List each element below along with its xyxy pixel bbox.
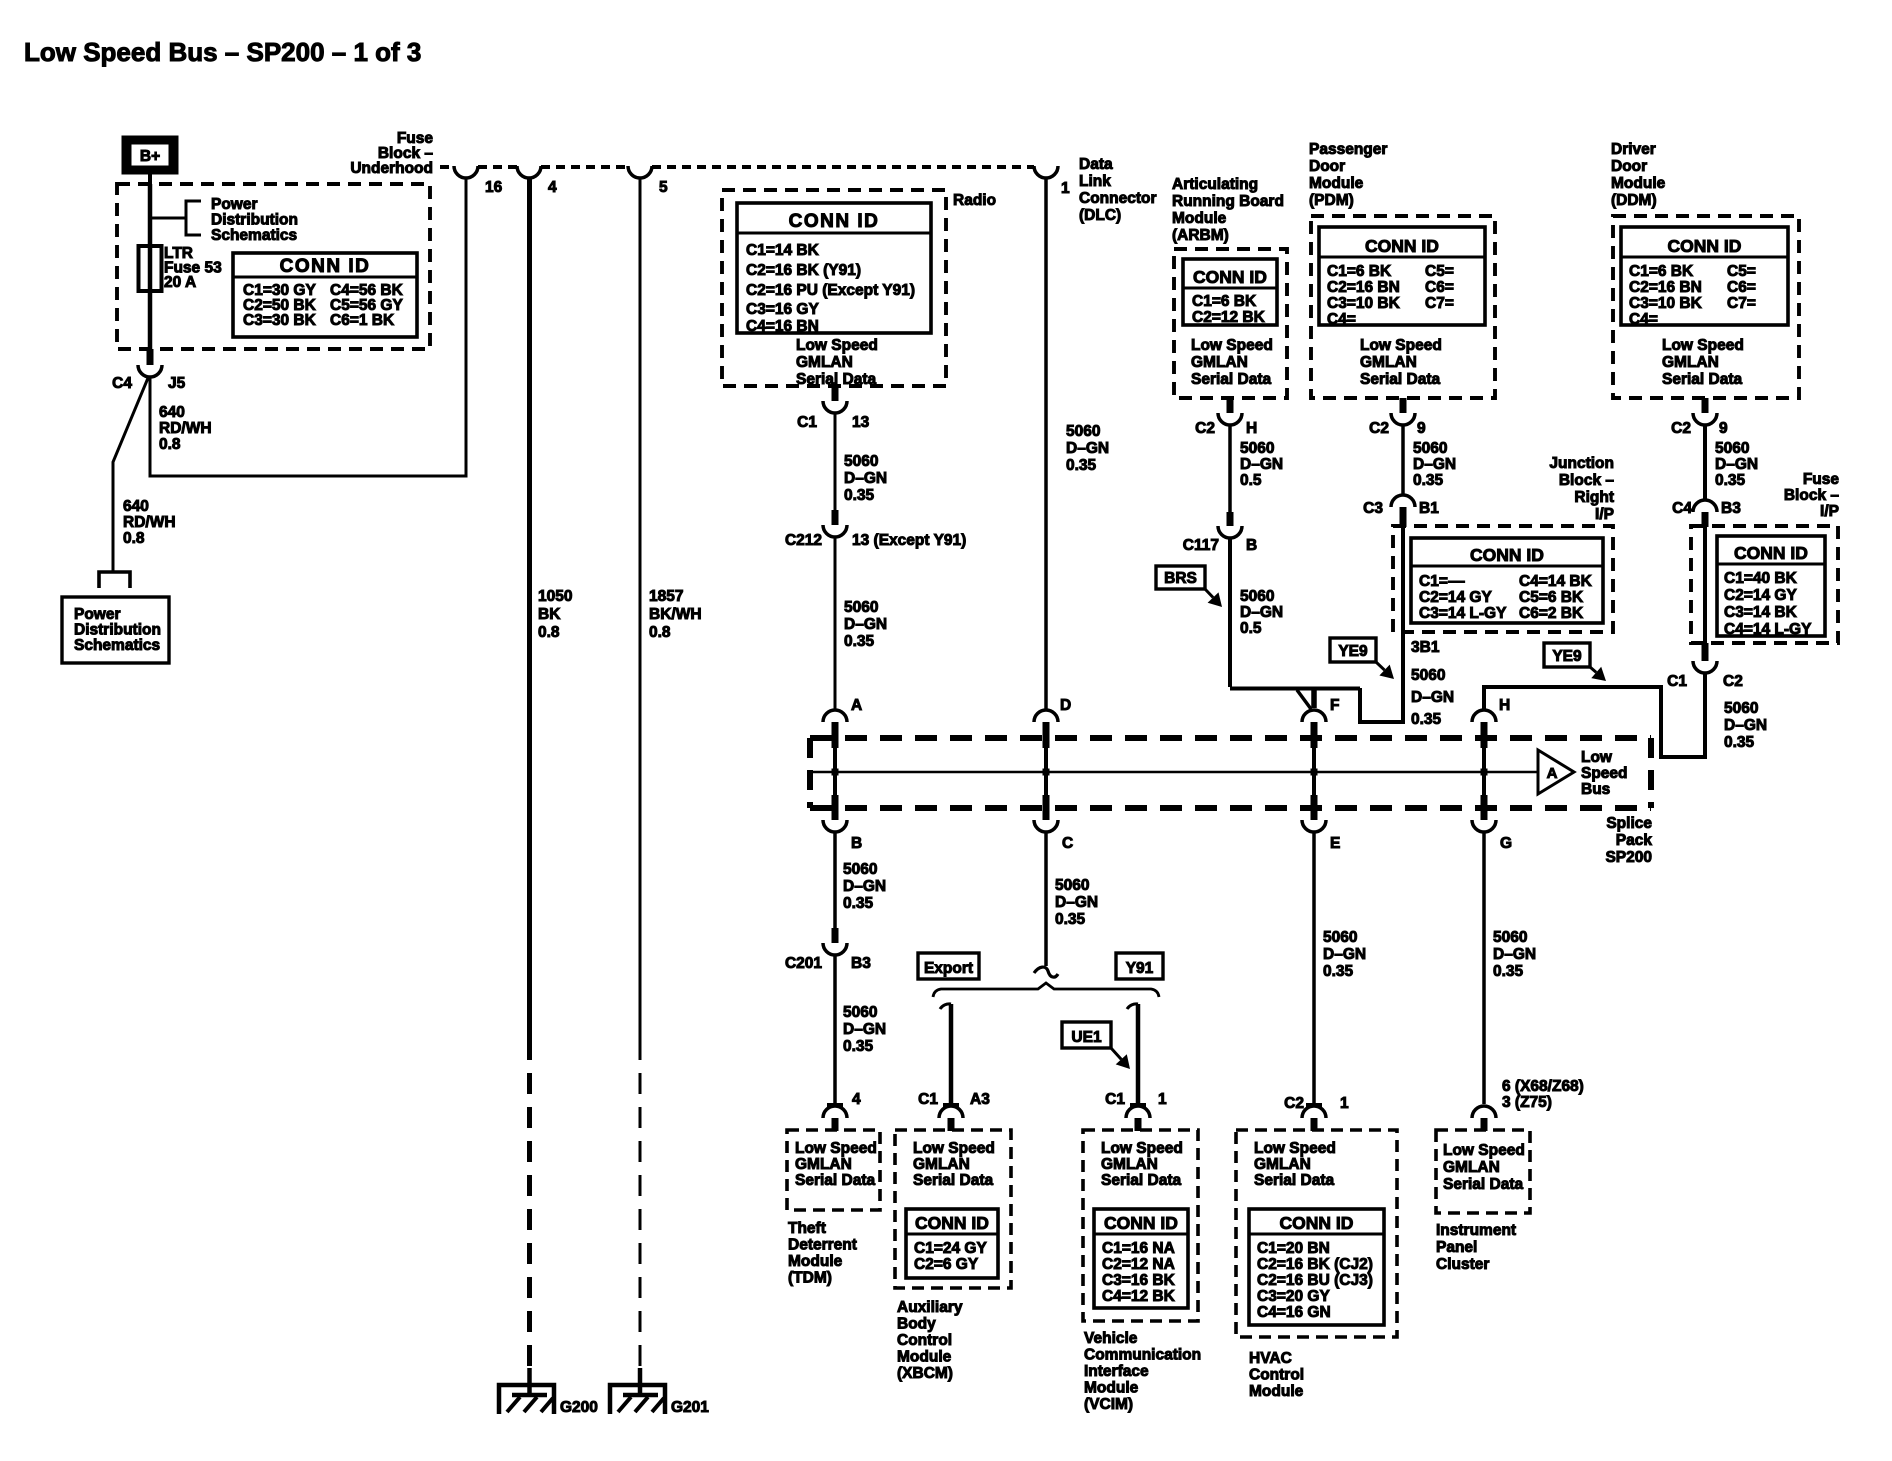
svg-text:C4=14 BK: C4=14 BK <box>1519 573 1593 590</box>
svg-text:0.35: 0.35 <box>1715 472 1746 489</box>
title Low Speed Bus SP200 1 of 3 <box>24 37 421 67</box>
dashed bus fuse block to DLC <box>440 165 1034 169</box>
svg-text:CONN ID: CONN ID <box>789 211 880 232</box>
module XBCM box <box>895 1130 1011 1288</box>
connector C117 B <box>1183 512 1257 554</box>
wire DLC to splice D <box>1044 178 1048 710</box>
svg-text:D–GN: D–GN <box>1066 440 1109 457</box>
svg-text:Connector: Connector <box>1079 190 1157 207</box>
wire radio upper <box>834 413 837 510</box>
conn id table PDM <box>1319 227 1485 328</box>
svg-text:6 (X68/Z68): 6 (X68/Z68) <box>1502 1078 1584 1095</box>
module VCIM box <box>1083 1130 1198 1321</box>
svg-text:Module: Module <box>1611 175 1666 192</box>
svg-text:D–GN: D–GN <box>1411 689 1454 706</box>
low speed bus line <box>812 771 1538 774</box>
wire ARBM to splice F <box>1230 538 1360 709</box>
wire E to HVAC <box>1312 832 1316 1104</box>
svg-text:C7=: C7= <box>1425 295 1454 312</box>
conn id table XBCM <box>906 1209 998 1278</box>
svg-text:I/P: I/P <box>1820 503 1839 520</box>
svg-text:GMLAN: GMLAN <box>1662 354 1719 371</box>
svg-text:C4: C4 <box>1672 500 1692 517</box>
svg-text:YE9: YE9 <box>1552 648 1582 665</box>
svg-text:BK/WH: BK/WH <box>649 606 702 623</box>
svg-text:Right: Right <box>1574 489 1614 506</box>
svg-text:C2: C2 <box>1284 1095 1304 1112</box>
svg-text:Door: Door <box>1309 158 1345 175</box>
connector C1 C2 fuse block IP <box>1667 643 1743 690</box>
svg-text:Serial Data: Serial Data <box>1191 371 1272 388</box>
svg-text:D–GN: D–GN <box>1413 456 1456 473</box>
svg-text:0.8: 0.8 <box>649 624 671 641</box>
svg-text:C2: C2 <box>1671 420 1691 437</box>
svg-text:C7=: C7= <box>1727 295 1756 312</box>
svg-text:C2=14 GY: C2=14 GY <box>1419 589 1492 606</box>
svg-text:640: 640 <box>123 498 149 515</box>
svg-text:Low Speed: Low Speed <box>1191 337 1273 354</box>
svg-text:YE9: YE9 <box>1338 643 1368 660</box>
svg-text:C4=: C4= <box>1327 311 1356 328</box>
svg-text:Auxiliary: Auxiliary <box>897 1299 963 1316</box>
svg-text:C4=16 BN: C4=16 BN <box>746 318 819 335</box>
label Power Distribution Schematics (fuse block) <box>211 196 298 244</box>
svg-text:G: G <box>1500 835 1512 852</box>
label 5060 D-GN 0.35 DLC <box>1066 423 1109 474</box>
svg-text:C4=12 BK: C4=12 BK <box>1102 1288 1176 1305</box>
connector 5 <box>628 166 668 196</box>
flag YE9 right <box>1544 643 1606 681</box>
label Junction Block Right IP <box>1549 455 1614 523</box>
wire fuse to C4 <box>148 246 153 351</box>
wire 1050 BK <box>527 179 532 1372</box>
svg-text:C6=: C6= <box>1425 279 1454 296</box>
svg-text:GMLAN: GMLAN <box>1254 1156 1311 1173</box>
module IPC box <box>1436 1130 1530 1213</box>
label 640 RD/WH 0.8 upper <box>159 404 212 453</box>
svg-text:GMLAN: GMLAN <box>913 1156 970 1173</box>
label Instrument Panel Cluster <box>1436 1222 1516 1273</box>
label Articulating Running Board Module <box>1172 176 1284 244</box>
svg-text:0.35: 0.35 <box>1055 911 1086 928</box>
svg-text:B3: B3 <box>851 955 871 972</box>
svg-text:D–GN: D–GN <box>1715 456 1758 473</box>
svg-text:Y91: Y91 <box>1126 960 1154 977</box>
svg-text:BK: BK <box>538 606 561 623</box>
svg-text:1857: 1857 <box>649 588 683 605</box>
conn id table HVAC <box>1249 1209 1384 1325</box>
label 5060 D-GN 0.35 radio upper <box>844 453 887 504</box>
svg-text:C3=16 GY: C3=16 GY <box>746 301 819 318</box>
wire Y91 branch <box>1127 1004 1138 1104</box>
svg-text:5060: 5060 <box>1240 440 1274 457</box>
label 5060 D-GN 0.35 B <box>843 861 886 912</box>
label Low Speed GMLAN Serial Data Radio <box>796 337 878 388</box>
svg-text:Panel: Panel <box>1436 1239 1477 1256</box>
wire J5 to fuse block pin 16 <box>150 179 466 476</box>
svg-text:Distribution: Distribution <box>211 212 298 229</box>
svg-text:C: C <box>1062 835 1073 852</box>
svg-text:C6=1 BK: C6=1 BK <box>330 312 395 329</box>
splice connector E <box>1302 772 1340 852</box>
svg-text:Passenger: Passenger <box>1309 141 1387 158</box>
fuse block IP box <box>1691 526 1838 643</box>
svg-text:5060: 5060 <box>1724 700 1758 717</box>
svg-text:(DDM): (DDM) <box>1611 192 1657 209</box>
svg-text:C117: C117 <box>1183 537 1219 554</box>
svg-text:4: 4 <box>852 1091 861 1108</box>
svg-text:Fuse: Fuse <box>1803 471 1840 488</box>
svg-text:Speed: Speed <box>1581 765 1628 782</box>
svg-text:Deterrent: Deterrent <box>788 1237 857 1254</box>
splice connector B <box>823 772 862 852</box>
svg-text:C2=16 BK (CJ2): C2=16 BK (CJ2) <box>1257 1256 1373 1273</box>
svg-text:C3=20 GY: C3=20 GY <box>1257 1288 1330 1305</box>
svg-text:C3=14 L-GY: C3=14 L-GY <box>1419 605 1507 622</box>
splice connector G <box>1472 772 1512 852</box>
svg-text:C2=16 BN: C2=16 BN <box>1629 279 1702 296</box>
svg-text:0.35: 0.35 <box>844 487 875 504</box>
svg-text:Low Speed: Low Speed <box>1443 1142 1525 1159</box>
svg-text:Underhood: Underhood <box>350 160 433 177</box>
svg-text:Serial Data: Serial Data <box>1662 371 1743 388</box>
svg-text:Low Speed: Low Speed <box>1662 337 1744 354</box>
power distribution schematics box <box>62 597 169 663</box>
svg-text:C3: C3 <box>1363 500 1383 517</box>
svg-text:Module: Module <box>897 1349 952 1366</box>
svg-text:Serial Data: Serial Data <box>1254 1172 1335 1189</box>
svg-text:C1=24 GY: C1=24 GY <box>914 1240 987 1257</box>
svg-text:Serial Data: Serial Data <box>795 1172 876 1189</box>
svg-text:B+: B+ <box>140 148 160 165</box>
svg-text:C4=16 GN: C4=16 GN <box>1257 1304 1331 1321</box>
svg-text:C2: C2 <box>1195 420 1215 437</box>
svg-text:5060: 5060 <box>1323 929 1357 946</box>
label Fuse Block IP <box>1784 471 1840 520</box>
label Low Speed GMLAN Serial Data DDM <box>1662 337 1744 388</box>
wire 640 RD/WH to power distribution <box>113 378 148 571</box>
svg-text:5060: 5060 <box>1493 929 1527 946</box>
wire junction block internal <box>1401 526 1405 632</box>
svg-text:GMLAN: GMLAN <box>795 1156 852 1173</box>
svg-text:CONN ID: CONN ID <box>1734 543 1808 563</box>
svg-text:C6=2 BK: C6=2 BK <box>1519 605 1584 622</box>
wire C2 to splice H <box>1484 673 1705 757</box>
ground G200 <box>499 1368 598 1416</box>
svg-text:5060: 5060 <box>1413 440 1447 457</box>
svg-text:5060: 5060 <box>1715 440 1749 457</box>
svg-text:Interface: Interface <box>1084 1363 1149 1380</box>
svg-text:Power: Power <box>211 196 258 213</box>
connector 16 <box>454 166 503 196</box>
svg-text:C2=12 BK: C2=12 BK <box>1192 309 1266 326</box>
connector C2 9 DDM <box>1671 398 1728 437</box>
conn id table ARBM <box>1183 259 1277 326</box>
label 1857 BK/WH 0.8 <box>649 588 702 641</box>
svg-text:D–GN: D–GN <box>844 616 887 633</box>
label Driver Door Module DDM <box>1611 141 1666 209</box>
label Low Speed GMLAN Serial Data HVAC <box>1254 1140 1336 1189</box>
label Theft Deterrent Module TDM <box>788 1220 857 1287</box>
svg-text:C4: C4 <box>112 375 132 392</box>
wire B+ into fuse block <box>148 174 152 188</box>
flag YE9 left <box>1330 638 1394 679</box>
svg-text:H: H <box>1499 697 1510 714</box>
module TDM box <box>787 1130 880 1210</box>
wire B to C201 <box>833 832 837 928</box>
svg-text:GMLAN: GMLAN <box>1443 1159 1500 1176</box>
svg-text:H: H <box>1246 420 1257 437</box>
fuse LTR Fuse 53 20A <box>139 246 162 291</box>
wire C drop <box>1044 832 1048 966</box>
off-page bracket power distribution <box>99 572 130 588</box>
svg-text:Theft: Theft <box>788 1220 826 1237</box>
splice pack SP200 box <box>810 738 1651 808</box>
svg-text:0.35: 0.35 <box>1493 963 1524 980</box>
module ARBM box <box>1174 249 1287 398</box>
splice connector D <box>1034 697 1071 776</box>
svg-text:Communication: Communication <box>1084 1347 1201 1364</box>
svg-text:(ARBM): (ARBM) <box>1172 227 1229 244</box>
svg-text:1: 1 <box>1340 1095 1349 1112</box>
label 5060 D-GN 0.35 DDM <box>1715 440 1758 489</box>
svg-text:5060: 5060 <box>843 861 877 878</box>
svg-text:C3=14 BK: C3=14 BK <box>1724 604 1798 621</box>
label 5060 D-GN 0.35 C <box>1055 877 1098 928</box>
svg-text:C1=6 BK: C1=6 BK <box>1192 293 1257 310</box>
label Splice Pack SP200 <box>1605 815 1652 866</box>
label 5060 D-GN 0.35 C2 <box>1724 700 1767 751</box>
svg-text:Serial Data: Serial Data <box>1360 371 1441 388</box>
wire ARBM upper <box>1228 425 1232 514</box>
svg-text:Instrument: Instrument <box>1436 1222 1516 1239</box>
svg-text:1: 1 <box>1158 1091 1167 1108</box>
svg-text:0.35: 0.35 <box>843 895 874 912</box>
svg-text:0.8: 0.8 <box>123 530 145 547</box>
svg-text:CONN ID: CONN ID <box>915 1213 989 1233</box>
svg-text:Serial Data: Serial Data <box>1101 1172 1182 1189</box>
svg-text:20 A: 20 A <box>164 274 196 291</box>
svg-text:13 (Except Y91): 13 (Except Y91) <box>852 532 966 549</box>
svg-text:CONN ID: CONN ID <box>1193 267 1267 287</box>
svg-text:Data: Data <box>1079 156 1113 173</box>
svg-text:Low Speed Bus – SP200 – 1 of 3: Low Speed Bus – SP200 – 1 of 3 <box>24 37 421 67</box>
svg-text:C2: C2 <box>1369 420 1389 437</box>
svg-text:5: 5 <box>659 179 668 196</box>
svg-text:D–GN: D–GN <box>1055 894 1098 911</box>
label Radio <box>953 192 996 209</box>
label 1050 BK 0.8 <box>538 588 572 641</box>
label HVAC Control Module <box>1249 1350 1304 1400</box>
svg-text:D–GN: D–GN <box>843 878 886 895</box>
svg-text:Block –: Block – <box>1559 472 1615 489</box>
wire 1857 BK/WH <box>639 179 642 1372</box>
svg-text:C2=16 PU (Except Y91): C2=16 PU (Except Y91) <box>746 282 915 299</box>
fuse block underhood box <box>117 184 430 349</box>
svg-text:J5: J5 <box>168 375 186 392</box>
svg-text:Junction: Junction <box>1549 455 1614 472</box>
conn id table junction block <box>1411 538 1603 623</box>
svg-text:4: 4 <box>548 179 557 196</box>
label Low Speed Bus <box>1581 749 1628 798</box>
svg-text:A3: A3 <box>970 1091 990 1108</box>
svg-text:Module: Module <box>1084 1380 1139 1397</box>
svg-text:0.35: 0.35 <box>1411 711 1442 728</box>
svg-text:Export: Export <box>924 960 973 977</box>
svg-text:D–GN: D–GN <box>1240 604 1283 621</box>
label Data Link Connector DLC <box>1079 156 1157 224</box>
svg-text:Serial Data: Serial Data <box>1443 1176 1524 1193</box>
svg-text:F: F <box>1330 697 1339 714</box>
svg-text:Module: Module <box>1249 1383 1304 1400</box>
label 3B1 <box>1411 639 1440 656</box>
label Passenger Door Module PDM <box>1309 141 1387 209</box>
svg-text:Low Speed: Low Speed <box>796 337 878 354</box>
svg-text:A: A <box>851 697 862 714</box>
svg-text:CONN ID: CONN ID <box>1668 236 1742 256</box>
wire export branch <box>940 1004 951 1104</box>
svg-text:C1=40 BK: C1=40 BK <box>1724 570 1798 587</box>
svg-text:D–GN: D–GN <box>1724 717 1767 734</box>
svg-text:A: A <box>1547 765 1558 782</box>
power distribution bracket <box>150 201 201 235</box>
svg-text:Running Board: Running Board <box>1172 193 1284 210</box>
svg-text:0.35: 0.35 <box>1323 963 1354 980</box>
svg-text:RD/WH: RD/WH <box>123 514 176 531</box>
svg-text:0.35: 0.35 <box>1724 734 1755 751</box>
svg-text:5060: 5060 <box>844 599 878 616</box>
svg-text:B1: B1 <box>1419 500 1439 517</box>
flag Y91 <box>1116 953 1163 979</box>
svg-text:(DLC): (DLC) <box>1079 207 1121 224</box>
connector C212 <box>785 510 966 549</box>
svg-text:HVAC: HVAC <box>1249 1350 1292 1367</box>
flag Export <box>918 953 979 979</box>
svg-text:C5=6 BK: C5=6 BK <box>1519 589 1584 606</box>
connector C3 B1 <box>1363 495 1439 527</box>
svg-text:C2=16 BU (CJ3): C2=16 BU (CJ3) <box>1257 1272 1373 1289</box>
svg-text:GMLAN: GMLAN <box>1101 1156 1158 1173</box>
wire DDM drop <box>1703 425 1707 500</box>
svg-text:Serial Data: Serial Data <box>796 371 877 388</box>
svg-text:G201: G201 <box>671 1399 709 1416</box>
svg-text:0.35: 0.35 <box>1413 472 1444 489</box>
svg-text:Low: Low <box>1581 749 1613 766</box>
connector C1 13 Radio <box>797 386 869 431</box>
svg-text:Door: Door <box>1611 158 1647 175</box>
svg-text:Body: Body <box>897 1316 936 1333</box>
svg-text:Vehicle: Vehicle <box>1084 1330 1138 1347</box>
svg-text:CONN ID: CONN ID <box>1104 1213 1178 1233</box>
splice connector C <box>1034 772 1073 852</box>
label 5060 D-GN 0.35 PDM <box>1413 440 1456 489</box>
svg-text:D–GN: D–GN <box>843 1021 886 1038</box>
wire G to IPC <box>1482 832 1486 1104</box>
svg-text:C2: C2 <box>1723 673 1743 690</box>
connector C1 1 VCIM <box>1105 1091 1167 1131</box>
junction block right IP box <box>1393 526 1613 632</box>
svg-text:5060: 5060 <box>844 453 878 470</box>
svg-text:Articulating: Articulating <box>1172 176 1258 193</box>
label LTR Fuse 53 20 A <box>164 245 222 291</box>
svg-text:C2=12 NA: C2=12 NA <box>1102 1256 1175 1273</box>
label Low Speed GMLAN Serial Data ARBM <box>1191 337 1273 388</box>
connector C2 1 HVAC <box>1284 1095 1349 1131</box>
svg-text:C4=: C4= <box>1629 311 1658 328</box>
svg-text:Splice: Splice <box>1606 815 1652 832</box>
splice connector H <box>1472 697 1510 776</box>
svg-text:0.35: 0.35 <box>844 633 875 650</box>
ground G201 <box>610 1368 709 1416</box>
svg-text:E: E <box>1330 835 1340 852</box>
wire B+ to fuse <box>148 184 153 246</box>
svg-text:Schematics: Schematics <box>74 637 160 654</box>
svg-text:0.8: 0.8 <box>538 624 560 641</box>
svg-text:D–GN: D–GN <box>844 470 887 487</box>
svg-text:C1=16 NA: C1=16 NA <box>1102 1240 1175 1257</box>
connector C4 B3 <box>1672 500 1741 527</box>
conn id table fuse block underhood <box>233 253 417 337</box>
connector 6 3 IPC <box>1472 1078 1584 1131</box>
svg-text:Block –: Block – <box>1784 487 1840 504</box>
label 5060 D-GN 0.35 G <box>1493 929 1536 980</box>
svg-text:C2=14 GY: C2=14 GY <box>1724 587 1797 604</box>
svg-text:Driver: Driver <box>1611 141 1656 158</box>
svg-text:C4=14 L-GY: C4=14 L-GY <box>1724 621 1812 638</box>
svg-text:CONN ID: CONN ID <box>1365 236 1439 256</box>
svg-text:C1=6 BK: C1=6 BK <box>1327 263 1392 280</box>
svg-text:B: B <box>1246 537 1257 554</box>
conn id table Radio <box>737 203 931 335</box>
module Radio box <box>722 190 946 386</box>
svg-text:1050: 1050 <box>538 588 572 605</box>
svg-text:C1: C1 <box>918 1091 938 1108</box>
svg-text:Module: Module <box>1172 210 1227 227</box>
svg-text:D–GN: D–GN <box>1493 946 1536 963</box>
svg-text:Low Speed: Low Speed <box>913 1140 995 1157</box>
svg-text:5060: 5060 <box>1055 877 1089 894</box>
svg-text:C212: C212 <box>785 532 822 549</box>
svg-text:3 (Z75): 3 (Z75) <box>1502 1094 1552 1111</box>
svg-text:0.35: 0.35 <box>1066 457 1097 474</box>
label 640 RD/WH 0.8 lower <box>123 498 176 547</box>
svg-text:Control: Control <box>1249 1367 1304 1384</box>
svg-text:Low Speed: Low Speed <box>795 1140 877 1157</box>
connector C1 A3 XBCM <box>918 1091 990 1131</box>
flag UE1 <box>1062 1022 1130 1069</box>
svg-text:13: 13 <box>852 414 870 431</box>
svg-text:0.5: 0.5 <box>1240 472 1262 489</box>
svg-text:C1: C1 <box>797 414 817 431</box>
svg-text:16: 16 <box>485 179 503 196</box>
svg-text:9: 9 <box>1719 420 1728 437</box>
module DDM box <box>1613 216 1799 398</box>
connector C2 H ARBM <box>1195 398 1257 437</box>
svg-text:5060: 5060 <box>1411 667 1445 684</box>
svg-text:640: 640 <box>159 404 185 421</box>
svg-text:Power: Power <box>74 606 121 623</box>
svg-text:Radio: Radio <box>953 192 996 209</box>
svg-text:C1=––: C1=–– <box>1419 573 1465 590</box>
connector C4 J5 <box>112 349 185 392</box>
flag BRS <box>1156 566 1222 607</box>
svg-text:C201: C201 <box>785 955 822 972</box>
connector 4 <box>517 166 557 196</box>
svg-text:Control: Control <box>897 1332 952 1349</box>
conn id table VCIM <box>1094 1209 1188 1308</box>
splice connector F <box>1302 697 1339 776</box>
svg-text:CONN ID: CONN ID <box>1470 545 1544 565</box>
